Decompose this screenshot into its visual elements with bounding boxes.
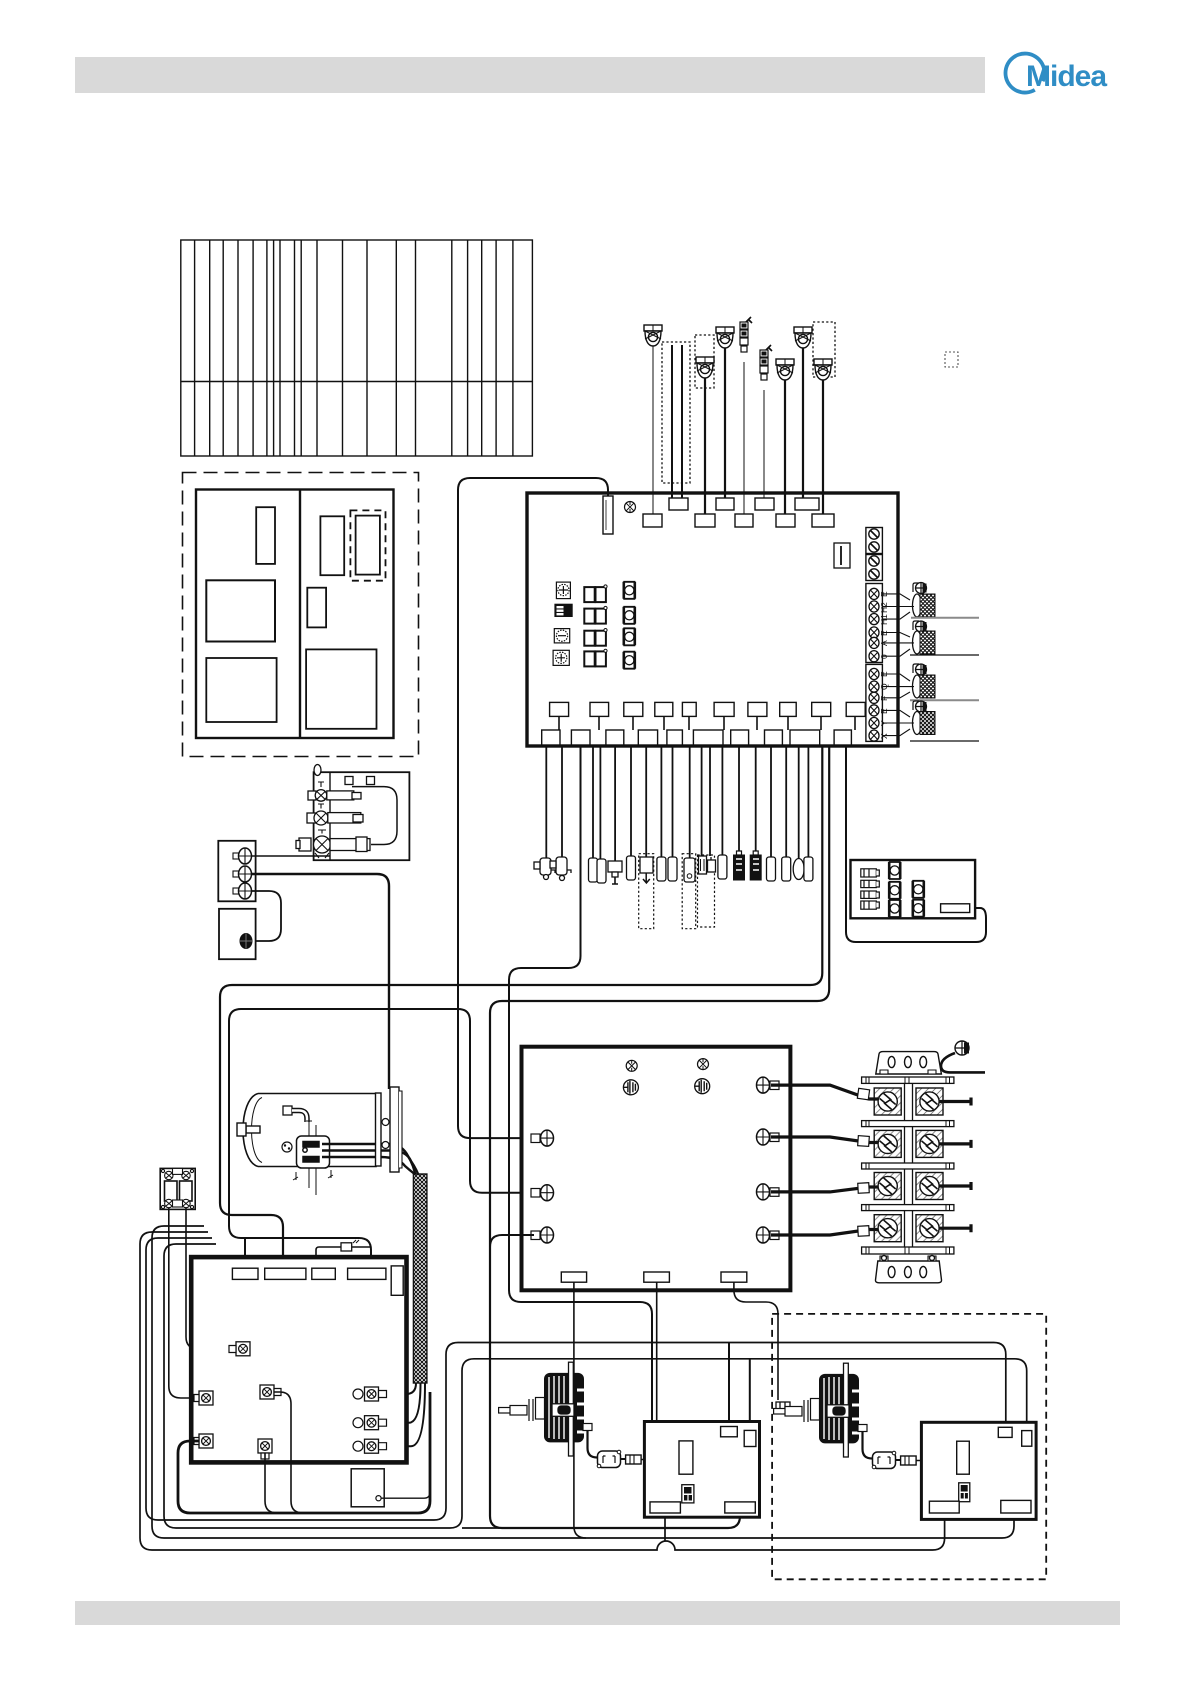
solenoid valve assembly box xyxy=(314,772,410,860)
relay box output rect xyxy=(941,904,970,913)
main control PCB outline xyxy=(527,493,898,746)
plug CN-b xyxy=(597,859,606,883)
bus wire 1342 from left bundle along bottom to fan box2 xyxy=(146,1238,1006,1520)
PCB top connector row2 CN1 xyxy=(643,514,662,527)
stubs from upper row to board edge xyxy=(559,716,855,730)
wire SB1-t3 to SB2 xyxy=(252,891,282,941)
PCB top connector row1 CN4 xyxy=(716,498,734,510)
relay box connector K3 xyxy=(861,891,880,898)
filter bottom connector F1 xyxy=(561,1272,586,1282)
cable gland 4 ground screw xyxy=(913,701,927,712)
wire V1 PCB CN30 to filter terminal L1 xyxy=(458,478,608,1138)
fan driver box 2 xyxy=(921,1422,1036,1519)
wire V4 PCB bottom to fan box 1 xyxy=(509,746,652,1421)
bottom bus A with crossover bump xyxy=(140,1232,945,1550)
plug CN-f xyxy=(668,857,677,881)
legend right small rect xyxy=(307,588,326,628)
plug CN-i xyxy=(767,857,776,881)
valve box top circle xyxy=(314,765,321,776)
terminal block separator bar 3 xyxy=(862,1205,954,1211)
terminal block top bar xyxy=(862,1077,954,1083)
box2 top rect 1 xyxy=(998,1427,1012,1437)
compressor terminal wires to tube xyxy=(322,1144,424,1180)
PCB top connector row2 CN3 xyxy=(695,514,715,527)
block output wire row4 xyxy=(939,1224,971,1232)
gland 4 wires from strip2 xyxy=(882,710,914,735)
svg-text:H2: H2 xyxy=(879,602,889,613)
inverter top connector 3 xyxy=(312,1268,336,1279)
feed wire filter R2 to block row2 xyxy=(771,1136,878,1147)
plug CN-a xyxy=(589,858,598,882)
fuse on wire above inverter xyxy=(316,1240,371,1257)
solenoid valve V1 xyxy=(308,782,361,801)
contactor screws xyxy=(161,1168,193,1208)
legend right dashed sub-box xyxy=(350,510,385,580)
ellipse plug xyxy=(793,859,804,880)
fan2 lead wire xyxy=(858,1425,872,1459)
PCB bottom connector row upper xyxy=(550,702,866,716)
block ground terminal xyxy=(941,1041,985,1072)
compressor oil sight circle xyxy=(282,1142,292,1152)
inverter top connector 1 xyxy=(232,1268,258,1279)
relay box connector K1 xyxy=(861,869,880,877)
terminal block center channel xyxy=(905,1083,913,1247)
7-segment display DSP1 xyxy=(584,585,607,602)
filter fan screw 2 xyxy=(698,1059,709,1070)
wire F1 down to bottom bus xyxy=(574,1282,586,1538)
legend table grid top-left xyxy=(181,240,533,456)
dashed box left plug xyxy=(776,1402,790,1412)
compressor right flange plates xyxy=(376,1087,403,1172)
filter board box xyxy=(522,1047,791,1291)
valve box inner vertical line xyxy=(329,772,331,860)
cable protection tube crosshatched xyxy=(413,1174,427,1383)
sensor T2 xyxy=(696,357,714,378)
stub from corner into inverter conn1 xyxy=(244,1238,246,1257)
box2 inner vertical rect xyxy=(957,1441,970,1474)
DIP switch S2 xyxy=(555,604,572,616)
dotted box sensor T2 xyxy=(695,335,714,388)
feed wire filter R3 to block row3 xyxy=(771,1183,878,1194)
black plug B1 xyxy=(734,851,745,880)
plug CN-k xyxy=(804,857,813,881)
PCB bottom connector row lower xyxy=(542,730,852,745)
inverter connector X3 bottom-mid xyxy=(258,1439,272,1459)
inverter top connector 4 xyxy=(348,1268,386,1279)
PCB fan screw symbol xyxy=(625,502,636,513)
dotted service box 2 xyxy=(682,854,696,929)
T-shaped plug xyxy=(608,861,622,884)
sensor T2 wire xyxy=(704,378,706,514)
wire pair in dotted box xyxy=(672,345,682,498)
compressor terminal box xyxy=(297,1136,330,1168)
terminal screw row2 right xyxy=(916,1130,943,1157)
filter bottom connector F2 xyxy=(644,1272,670,1282)
rotary switch S3 xyxy=(554,629,569,643)
sensor T3 wire xyxy=(724,348,726,498)
screw terminal pair block upper xyxy=(866,528,883,554)
relay box button A2 xyxy=(889,882,901,899)
solenoid valve V3 main xyxy=(296,830,370,859)
fan driver box 1 xyxy=(644,1422,759,1518)
legend cell rectangle large xyxy=(206,658,276,722)
push button SW2 xyxy=(623,607,635,624)
inverter terminal P left-mid xyxy=(194,1391,213,1405)
block output wire row1 xyxy=(939,1098,971,1106)
gland 1 tail line xyxy=(911,617,979,619)
terminal block bottom bar xyxy=(862,1247,954,1254)
inverter terminal W xyxy=(353,1439,387,1453)
relay mini box right xyxy=(851,860,976,918)
Midea logo xyxy=(1005,54,1107,93)
compressor measurement ticks lower xyxy=(293,1168,333,1195)
terminal block separator bar 2 xyxy=(862,1163,954,1169)
branch bus1342 into fan box1 conn xyxy=(728,1343,730,1427)
filter right terminal R4 xyxy=(757,1227,780,1243)
filter right terminal R2 xyxy=(757,1129,780,1145)
inverter terminal V xyxy=(353,1416,387,1430)
long wire W1001 from PCB down left side of filter to bottom bus xyxy=(490,746,829,1528)
sensor T3 xyxy=(716,327,734,348)
filter right terminal R1 xyxy=(757,1077,780,1093)
black plug B2 xyxy=(750,851,761,880)
legend right big rect xyxy=(306,649,376,728)
plug CN-j xyxy=(782,857,791,881)
sensor T4 xyxy=(776,359,794,380)
outdoor dashed unit box xyxy=(772,1314,1046,1579)
dotted service box 1 xyxy=(639,854,654,929)
block output wire row2 xyxy=(939,1140,971,1148)
inverter connector X1 xyxy=(229,1342,250,1356)
push button SW4 xyxy=(623,652,635,669)
PCB small vertical component right xyxy=(834,543,850,568)
PCB top connector row1 CN8 xyxy=(795,498,819,510)
relay box connector K2 xyxy=(861,880,880,887)
terminal screw row4 right xyxy=(916,1215,943,1242)
filter right terminal R3 xyxy=(757,1184,780,1200)
gland 4 tail line xyxy=(910,740,979,742)
inverter X3 wire down to bus xyxy=(265,1453,277,1513)
pressure switch plug P2 xyxy=(550,857,571,881)
relay box connector K4 xyxy=(861,901,880,909)
long wire W985 from PCB to inverter conn2 xyxy=(220,746,822,1257)
terminal block top cap xyxy=(876,1052,942,1074)
fan1 capacitor capsule xyxy=(597,1450,621,1468)
dotted box sensor T6 xyxy=(813,322,835,377)
compressor suction pipe left xyxy=(237,1123,260,1136)
filter capacitor symbol 2 xyxy=(695,1079,710,1094)
chain connector C2 xyxy=(760,345,772,380)
fan motor 2 xyxy=(774,1363,859,1457)
wire SB1-t2 long down to compressor plate xyxy=(252,874,390,1089)
cable gland 1 xyxy=(913,594,936,617)
cable gland 1 ground screw xyxy=(913,583,927,594)
filter bottom connector F3 xyxy=(721,1272,747,1282)
box1 bottom rect left xyxy=(650,1502,680,1513)
sensor box SB2 xyxy=(219,909,256,959)
terminal screw row2 left xyxy=(874,1130,901,1157)
legend right cell rect xyxy=(320,516,344,575)
compressor measurement ticks upper xyxy=(306,1118,316,1138)
terminal strip 2 labels xyxy=(879,671,889,739)
heavy bus P1 inverter N loop xyxy=(178,1392,430,1513)
y1528 bus continuity segment xyxy=(462,1527,502,1529)
sensor T1 xyxy=(644,325,662,346)
terminal screw row1 right xyxy=(916,1088,943,1115)
box1 small component xyxy=(682,1485,694,1503)
box2 bottom rect left xyxy=(929,1501,959,1513)
dotted service box 3 xyxy=(698,855,715,927)
box2 small component xyxy=(959,1483,970,1502)
terminal strip 1 (0 A E H1 H2 E) xyxy=(866,584,883,663)
bottom footer gray bar xyxy=(75,1601,1120,1625)
fan2 plug xyxy=(896,1456,917,1465)
box1 bottom rect right xyxy=(725,1502,756,1513)
tube wires to inverter U V W xyxy=(398,1383,425,1446)
plug CN-g xyxy=(684,858,695,882)
wire SB1-t1 to valve box xyxy=(252,855,331,857)
rotary switch S4 xyxy=(553,650,569,665)
compressor capacitor-contactor box xyxy=(160,1168,195,1209)
push button SW1 xyxy=(623,582,635,599)
contactor wire to inverter terminal row2 xyxy=(169,1208,199,1398)
block output wire row3 xyxy=(939,1182,971,1190)
wire F3 to dashed box plug xyxy=(734,1282,778,1400)
wires descending from PCB bottom to plugs xyxy=(546,746,808,862)
legend cell rectangle small tall xyxy=(256,507,275,564)
sensor box SB1 xyxy=(218,841,255,902)
inverter terminal N left-bottom xyxy=(194,1434,213,1448)
gland 2 tail line xyxy=(910,654,979,656)
inverter terminal U xyxy=(353,1387,387,1401)
sensor T4 wire xyxy=(784,380,786,514)
top header gray bar xyxy=(75,57,985,93)
7-segment display DSP2 xyxy=(584,606,607,623)
gland 2 wires from strip1 xyxy=(882,633,914,657)
overhead loop wire filter L2 to inverter conn4 xyxy=(229,1009,534,1257)
cable gland 2 ground screw xyxy=(913,621,927,632)
inverter top connector 2 xyxy=(265,1268,306,1279)
pressure switch plug P1 xyxy=(534,858,555,880)
compressor body xyxy=(243,1094,376,1167)
plug CN-c xyxy=(627,856,636,880)
SB1 terminal t2 xyxy=(233,866,252,882)
fan1 plug xyxy=(621,1455,642,1464)
SB1 terminal t3 xyxy=(233,883,252,899)
terminal screw row1 left xyxy=(874,1088,901,1115)
PCB top connector row2 CN5 xyxy=(735,514,753,527)
plug CN-h xyxy=(718,855,727,879)
terminal screw row4 left xyxy=(874,1215,901,1242)
svg-text:F: F xyxy=(879,696,889,701)
SB2 dark terminal xyxy=(240,934,252,949)
wire loop PCB to relay box xyxy=(846,746,986,942)
gland 1 wires from strip1 xyxy=(882,594,914,619)
terminal screw row3 right xyxy=(916,1173,943,1200)
gland 3 tail line xyxy=(910,699,979,701)
branch bus1358 into fan box1 conn2 xyxy=(749,1359,751,1430)
feed wire filter R1 to block row1 xyxy=(771,1085,878,1100)
relay box button A1 xyxy=(889,862,901,879)
fan1 lead wire xyxy=(583,1424,597,1458)
relay box button B1 xyxy=(912,881,924,898)
fan1 wire into box xyxy=(641,1459,679,1461)
terminal strip 2 (X Y E F Q E) xyxy=(866,664,883,741)
PCB top connector row1 CN2 xyxy=(669,498,688,510)
box1 top rect 2 xyxy=(744,1430,756,1446)
legend dashed outline box xyxy=(183,473,419,757)
plug CN-d with pin xyxy=(640,857,653,883)
box2 bottom rect right xyxy=(1001,1500,1031,1513)
PCB top connector row2 CN9 xyxy=(812,514,834,527)
legend rect inside dashed sub-box xyxy=(356,516,380,575)
box2 top rect 2 xyxy=(1022,1431,1032,1447)
valve box small square 2 xyxy=(367,777,375,785)
compressor flange bolts xyxy=(382,1119,389,1149)
terminal screw row3 left xyxy=(874,1173,901,1200)
feed wire filter R4 to block row4 xyxy=(771,1226,878,1237)
fan box2 left rect stub through box edge xyxy=(944,1513,946,1519)
box1 inner vertical rect xyxy=(679,1441,693,1474)
7-segment display DSP4 xyxy=(584,649,607,666)
bus wire 1358 from left bundle along bottom to fan box2 xyxy=(164,1244,1027,1528)
PCB slim connector CN30 top-left xyxy=(603,496,613,534)
bottom bus C xyxy=(152,1226,1014,1538)
screw terminal pair block lower xyxy=(866,555,883,581)
filter fan screw 1 xyxy=(626,1060,637,1071)
compressor top elbow pipe xyxy=(283,1106,307,1122)
svg-text:E: E xyxy=(879,708,889,714)
small dashed square far right xyxy=(945,352,958,367)
inverter connector X2 mid xyxy=(260,1385,281,1399)
SB1 terminal t1 xyxy=(233,848,252,864)
legend cell rectangle mid xyxy=(206,580,275,641)
wire F2 down to fan box 1 xyxy=(656,1282,658,1421)
relay box button B2 xyxy=(912,900,924,917)
sensor T5 wire xyxy=(802,348,804,498)
legend inner solid box with divider xyxy=(196,490,394,739)
fan2 wire into box xyxy=(916,1460,957,1462)
small plug pair in box 3 xyxy=(699,856,716,874)
wire filter L3 merging onto vertical x490 xyxy=(490,1235,534,1247)
plug CN-e xyxy=(657,857,666,881)
fan box1 left rect wire to bump xyxy=(664,1513,666,1541)
cable gland 4 xyxy=(913,712,936,735)
7-segment display DSP3 xyxy=(584,629,607,646)
sensor T5 xyxy=(794,327,812,348)
contactor wire to inverter terminal row1 xyxy=(186,1208,236,1349)
gland 3 wires from strip2 xyxy=(882,674,914,698)
sensor T1 wire xyxy=(652,346,654,514)
terminal block separator bar 1 xyxy=(862,1121,954,1127)
sensor T6 xyxy=(814,359,832,380)
inverter main box xyxy=(191,1257,406,1462)
inverter X2 wire down to bus xyxy=(274,1392,303,1513)
chain connector C2 wire xyxy=(763,390,765,498)
filter capacitor symbol 1 xyxy=(623,1080,638,1095)
filter left terminal L1 xyxy=(531,1130,554,1146)
valve box small square 1 xyxy=(345,777,353,785)
box1 top rect 1 xyxy=(721,1427,738,1437)
cable gland 2 xyxy=(913,631,936,654)
chain connector C1 wire xyxy=(743,362,745,514)
fan2 capacitor capsule xyxy=(872,1451,896,1469)
fan motor 1 xyxy=(499,1362,584,1456)
valve pipe U-bend xyxy=(352,787,397,845)
reactor box below inverter xyxy=(351,1469,430,1507)
rotary switch S1 xyxy=(556,582,570,599)
chain connector C1 xyxy=(740,317,752,352)
filter left terminal L3 xyxy=(531,1227,554,1243)
solenoid valve V2 xyxy=(307,804,363,826)
PCB top connector row2 CN7 xyxy=(776,514,795,527)
terminal strip 1 labels xyxy=(879,591,889,659)
svg-text:Midea: Midea xyxy=(1026,60,1107,93)
PCB top connector row1 CN6 xyxy=(755,498,774,510)
relay box button A3 xyxy=(889,900,901,917)
sensor T6 wire xyxy=(822,380,824,514)
cable gland 3 xyxy=(913,675,936,698)
cable gland 3 ground screw xyxy=(913,664,927,675)
terminal block bottom cap xyxy=(875,1256,941,1283)
inverter right vertical connector xyxy=(391,1266,403,1295)
filter left terminal L2 xyxy=(531,1185,554,1201)
push button SW3 xyxy=(623,628,635,645)
dotted box around wires pair xyxy=(662,342,690,483)
